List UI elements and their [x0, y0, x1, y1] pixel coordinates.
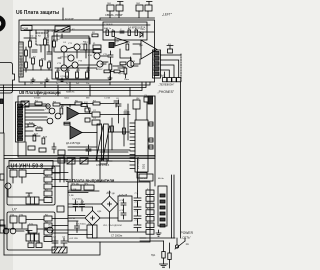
capacitor C1 [32, 50, 37, 52]
bridge plus VD5 [108, 202, 112, 206]
wire title drop [62, 8, 64, 20]
wire U6 m1 [60, 38, 90, 44]
svg-text:U4 УНЧ-50-8: U4 УНЧ-50-8 [11, 163, 44, 169]
connector X2 pin 1 [18, 104, 23, 106]
U3 pin box 5 [146, 216, 154, 221]
transistor box VT1 [10, 170, 17, 177]
transistor Q3 [61, 65, 67, 71]
connector X2 pin 4 [18, 114, 23, 116]
transistor Q7 [68, 55, 74, 61]
wire u8 w9 [118, 110, 120, 123]
resistor R11 [92, 34, 98, 37]
svg-text:U6 Плата защиты: U6 Плата защиты [16, 10, 59, 16]
op-amp A3 U8 [70, 126, 82, 139]
channel block A outline [7, 166, 55, 205]
res col c4 [44, 237, 52, 242]
wire bundle mid h1 [0, 82, 150, 85]
wire u8 v10 [112, 104, 128, 150]
chip DD1 pins left [130, 123, 135, 169]
wire u7 b [39, 173, 55, 201]
sub-board A1 box [103, 22, 147, 40]
capacitor C4 [134, 194, 141, 204]
res col a3 [44, 184, 52, 189]
connector XS1 pin b [116, 5, 123, 11]
transistor Q11 [47, 118, 53, 124]
wire top bundle [100, 11, 155, 20]
svg-text:„LEFT”: „LEFT” [162, 12, 172, 16]
connector X5 pin 2 [160, 200, 165, 203]
svg-text:VD: VD [48, 224, 51, 226]
relay cells B [30, 234, 34, 241]
connector XS2 pin a [136, 5, 143, 11]
wire U6 inner top [22, 24, 150, 26]
resistor R13 [126, 44, 129, 50]
wire R1bc [25, 47, 27, 72]
svg-text:10к: 10к [86, 83, 89, 85]
resistor R21 [33, 135, 36, 141]
capacitor B3 lead [167, 46, 173, 50]
resistor A1 r2 [112, 31, 115, 36]
capacitor C9 [80, 200, 85, 211]
connector X5 pin 1 [160, 194, 165, 197]
connector X5 pin 4 [160, 212, 165, 215]
transistor Q2 [74, 44, 80, 50]
wire p1 [140, 238, 175, 241]
wire u7 c [13, 219, 55, 234]
transistor box VT4 [10, 216, 17, 223]
transistor Q9 [49, 108, 55, 114]
svg-text:1А: 1А [186, 242, 189, 246]
svg-text:КЛ568: КЛ568 [34, 98, 41, 100]
svg-text:1к: 1к [56, 83, 58, 85]
resistor R1 [29, 41, 32, 47]
capacitor C10 [75, 222, 80, 233]
svg-text:ВЫХ: ВЫХ [160, 74, 166, 77]
svg-text:U3 Плата выпрямителя: U3 Плата выпрямителя [66, 178, 115, 183]
svg-text:2к: 2к [66, 83, 68, 85]
wire U6 v7 [110, 61, 112, 80]
svg-text:НЗМ: НЗМ [22, 27, 29, 31]
capacitor C5x [26, 231, 32, 234]
box midcol b [58, 158, 65, 163]
resistor R5 [40, 60, 43, 66]
res col c2 [44, 223, 52, 228]
svg-text:U8 Плата индикации: U8 Плата индикации [19, 90, 61, 95]
inner shield box U6 [52, 36, 89, 79]
connector X3 pin 2 [154, 57, 159, 61]
box preU3 c [100, 159, 107, 164]
res col a1 [44, 170, 52, 175]
antenna symbol XS2 [147, 2, 153, 6]
svg-text:„ТЕЛЕФОН”: „ТЕЛЕФОН” [159, 82, 175, 86]
resistor R16 [81, 104, 87, 107]
wire u8 w8 [108, 131, 130, 133]
resistor R9 [76, 72, 79, 78]
wire U6 v3 [53, 30, 55, 52]
transistor box VT5 [19, 216, 26, 223]
resistor R14 [120, 62, 126, 65]
connector X2 pin 3 [18, 111, 23, 113]
wire rc2 [161, 60, 179, 78]
box X-cell hatch [21, 101, 29, 107]
op-amp A2 U8 [67, 107, 79, 120]
resistor R1c [25, 62, 28, 68]
pad U8 right edge [148, 96, 153, 104]
ground g3 [60, 78, 64, 81]
wire U6 h4 [55, 67, 97, 69]
svg-text:ЗА12: ЗА12 [64, 97, 70, 100]
fuse F3 [162, 252, 165, 259]
resistor R8 [66, 72, 69, 78]
box bl1 [0, 225, 5, 233]
connector XS1 pin a [107, 5, 114, 11]
svg-text:VD1, VD4 КД202М: VD1, VD4 КД202М [103, 225, 122, 227]
wire U6 h3 [55, 51, 94, 53]
transistor Q5 [94, 53, 100, 59]
resistor R18 [60, 108, 63, 114]
box above chip b [144, 97, 150, 102]
wire u3 w4 [110, 212, 147, 232]
transistor Q8a [46, 104, 50, 108]
svg-text:POWER: POWER [181, 231, 194, 235]
board U8 outline [18, 96, 155, 157]
box VD1 dark [109, 43, 114, 48]
relay cells [30, 197, 34, 204]
potentiometer P1 [97, 124, 102, 161]
connector X2 pin 2 [18, 107, 23, 109]
ground g4 [108, 76, 112, 79]
wire U6 m3 [58, 58, 97, 65]
wire U6 m5 [57, 34, 62, 41]
resistor A1 r3 [128, 30, 131, 35]
fuse box F2 [84, 185, 94, 190]
box mid U8 c [85, 108, 90, 112]
left margin shading [0, 0, 13, 270]
antenna symbol XS1 [118, 2, 124, 6]
box bl3 [87, 225, 97, 238]
wire U6 v2 [44, 30, 46, 60]
svg-text:БЛОКИР: БЛОКИР [65, 18, 74, 20]
wire u8 w2 [25, 112, 49, 114]
switch S1 [175, 245, 178, 248]
board U3 outline [68, 182, 150, 242]
box B3 [168, 49, 173, 53]
capacitor cluster bottom [52, 238, 67, 246]
svg-text:ДА К157УД2: ДА К157УД2 [66, 142, 81, 145]
resistor R25 [104, 70, 110, 73]
svg-text:U7: U7 [12, 208, 17, 212]
wire v bund2 [72, 159, 100, 183]
svg-text:ГОЛОВКА КАДРОВ: ГОЛОВКА КАДРОВ [20, 55, 23, 76]
box preU3 a [67, 158, 75, 164]
resistor R27 [124, 68, 127, 74]
wire bundle ticks [25, 82, 130, 96]
resistor R12 [84, 44, 87, 50]
wire U6 h1 [24, 29, 103, 31]
wire u8 w6 [82, 132, 97, 134]
capacitor C5b [134, 203, 141, 213]
svg-text:DD1: DD1 [141, 163, 145, 169]
svg-text:АЛ307: АЛ307 [96, 68, 103, 71]
pot arrow 2 [103, 126, 110, 160]
capacitor U8 c1 [114, 101, 118, 107]
svg-text:С3 2000м: С3 2000м [76, 224, 86, 226]
connector X3 pin 4 [154, 67, 159, 71]
res col a5 [44, 198, 52, 203]
label box U4 [9, 161, 53, 169]
svg-text:2к: 2к [67, 55, 69, 57]
transistor QA1 [127, 61, 134, 68]
chip pad 1 [149, 122, 153, 126]
U3 pin box 3 [146, 203, 154, 208]
hatch lines bottom [54, 247, 66, 253]
capacitor C3b [118, 66, 123, 68]
wire u8 fb1 [63, 105, 90, 114]
wire U6 m6 [36, 30, 49, 52]
wire v bund1 [60, 156, 64, 183]
wire u3 w2 [68, 203, 118, 205]
wire u4u3 link2 [55, 219, 68, 234]
box X-cell U8 [21, 101, 29, 107]
wire left low drop [3, 133, 5, 255]
resistor A1 r4 [135, 30, 138, 35]
box MB [52, 166, 60, 173]
wire mid left drop [0, 85, 4, 133]
svg-text:ХЛЗ: ХЛЗ [36, 241, 41, 243]
wire u8 fb2 [64, 124, 70, 126]
resistor R10 [86, 72, 89, 78]
wire u3 x1 [68, 193, 92, 235]
resistor R3 [53, 41, 56, 47]
dashed wire right [180, 54, 182, 82]
ground p1 [160, 264, 168, 267]
chip pad 3 [149, 145, 153, 149]
resistor R19 [28, 124, 34, 127]
connector X5 housing [158, 186, 167, 226]
transistor Q4 [72, 62, 78, 68]
edge box A [0, 174, 4, 180]
dashed select rect U6 [36, 33, 48, 45]
relay contact box B [26, 234, 39, 241]
svg-text:С1 2000м: С1 2000м [72, 199, 82, 201]
capacitor u8 low [52, 143, 56, 153]
wire U6 v1 [29, 30, 31, 58]
connector X2 pin 6 [18, 121, 23, 123]
wire u4u3 link1 [55, 173, 68, 187]
bridge plus VD6 [91, 216, 95, 220]
svg-text:С4 50В: С4 50В [140, 178, 148, 180]
wire U6 bottom rail [24, 70, 110, 80]
wire p2 [164, 241, 170, 268]
res col a2 [44, 177, 52, 182]
svg-text:ПР1 2А: ПР1 2А [71, 182, 79, 185]
transistor bl [47, 227, 53, 233]
box u8 low a [28, 146, 35, 150]
svg-text:С19 R40: С19 R40 [104, 24, 113, 26]
wire p3 [177, 238, 185, 245]
box preU3 b hatch [80, 158, 88, 164]
wire chip top [136, 102, 147, 120]
svg-text:ДМ: ДМ [136, 98, 139, 100]
wire rc3 [161, 65, 175, 78]
connector X2 pin 7 [18, 124, 23, 126]
resistor R7 [56, 72, 59, 78]
wire U6 m8 [33, 64, 49, 70]
box preU3 a hatch [67, 158, 75, 164]
box u8 low b [39, 148, 46, 152]
wire U6 m10 [125, 58, 138, 78]
caps box U3 [118, 196, 132, 221]
box bl2 [28, 225, 37, 233]
svg-text:+U 5В: +U 5В [69, 218, 76, 220]
transistor VT3 [5, 183, 11, 189]
transistor box VT2 [19, 170, 26, 177]
resistor stack Ra [93, 45, 101, 48]
edge box B [0, 220, 4, 226]
wire U6 v6 [120, 49, 130, 58]
connector X2 pin 8 [18, 128, 23, 130]
capacitor C6 [134, 212, 141, 222]
transistor Q6 [97, 61, 103, 67]
wire u7 a [8, 174, 44, 198]
svg-text:СВЯЗЬ „ПРАВ”: СВЯЗЬ „ПРАВ” [105, 13, 123, 17]
connector strip U6 left [19, 42, 23, 77]
svg-text:+U 12В: +U 12В [69, 189, 77, 191]
op-amp A2 U6 [115, 38, 128, 47]
resistor R15b [109, 64, 112, 70]
capacitor C7 [134, 221, 141, 231]
svg-text:СП3 470к-б: СП3 470к-б [96, 164, 110, 167]
fuse box F1 [71, 185, 81, 190]
box above chip a [133, 100, 140, 109]
wire u3 w3 [68, 217, 118, 219]
relay box K1 [55, 26, 70, 32]
wire u3 w6 [68, 191, 110, 211]
connector XL2 [28, 243, 34, 248]
wire u8 w4 [25, 125, 36, 127]
ground right mid [156, 230, 161, 236]
wire u8 h10 [68, 150, 130, 152]
svg-text:гнез: гнез [141, 29, 145, 31]
capacitor A1 c1 [120, 31, 124, 33]
wire QA1 [134, 59, 140, 64]
resistor U8 r2 [53, 103, 60, 106]
right wire pair [172, 175, 175, 238]
resistor R17 [64, 122, 70, 125]
connector X5 pin 6 [160, 224, 165, 227]
connector strip ticks [19, 44, 23, 74]
chip pad 2 [149, 138, 153, 142]
resistor R20 [36, 128, 42, 131]
channel block B outline [7, 212, 55, 250]
paper background [0, 0, 195, 270]
connector XL3 [36, 243, 42, 248]
connector X2 pin 10 [18, 135, 23, 137]
svg-text:„PHONES”: „PHONES” [158, 90, 175, 94]
hatch box bottom [52, 247, 67, 253]
resistor U8 r4 [93, 102, 100, 105]
resistor stack Rb [93, 49, 101, 52]
wire U6 m4 [101, 56, 108, 64]
capacitor C8 [73, 200, 78, 211]
capacitor Cb1 [121, 199, 126, 209]
connector X2 pin 5 [18, 118, 23, 120]
resistor R22 [42, 138, 45, 144]
wire U6 h5 [103, 31, 154, 33]
svg-text:КАБЕЛЬ: КАБЕЛЬ [66, 91, 75, 94]
chip DD1 pins right [148, 124, 153, 147]
connector XS2 pin b [145, 5, 152, 11]
connector X2 pin 11 [18, 138, 23, 140]
svg-text:Пр1: Пр1 [151, 254, 156, 257]
output jack row [163, 78, 167, 82]
svg-text:R42 1к: R42 1к [104, 28, 111, 30]
diode A1 d1 [140, 32, 143, 37]
capacitor C3a [108, 51, 113, 61]
wire U6 m9 [103, 62, 125, 71]
connector X2 housing [16, 102, 26, 142]
wire u3 w7 [137, 191, 139, 207]
svg-text:10к: 10к [30, 36, 33, 38]
pot arrow 1 [96, 126, 103, 160]
connector X3 pin 5 [154, 72, 159, 76]
wire U6 h2 [24, 37, 36, 39]
wire u8 w5 [79, 113, 92, 115]
svg-text:РЭС49: РЭС49 [46, 31, 54, 33]
wire v bund3 [137, 159, 139, 192]
box midcol c [57, 206, 64, 212]
connector X3 pin 3 [154, 62, 159, 66]
ground g1 [31, 78, 35, 81]
connector X3 pin 1 [154, 52, 159, 56]
pad U8 left edge [0, 99, 3, 104]
wire u8 w1 [25, 105, 70, 108]
wire bundle below U8 [4, 156, 155, 162]
wire U6 m2 [80, 50, 94, 58]
box below chip [137, 173, 147, 179]
label box C4 [139, 174, 153, 181]
svg-text:5к: 5к [47, 36, 49, 38]
transistor VT7 [10, 228, 16, 234]
resistor R4 [32, 58, 35, 64]
resistor A1 r1 [106, 30, 109, 35]
wire rc4 [161, 70, 170, 78]
potentiometer P2 [104, 124, 109, 161]
IC chip DD1 [135, 120, 148, 172]
ground g2 [45, 78, 49, 81]
resistor U8 r3 [75, 102, 82, 105]
relay contact box [26, 197, 39, 204]
bridge rectifier VD5 [102, 196, 118, 212]
U3 pin box 7 [146, 230, 154, 235]
resistor U8 r1 [35, 102, 42, 105]
U3 pin box 2 [146, 197, 154, 202]
wire u8 x1 [68, 146, 97, 148]
svg-text:„СЕТЬ”: „СЕТЬ” [182, 235, 191, 239]
wire bundle mid h2 [0, 82, 146, 88]
box midcol a [58, 150, 65, 155]
capacitor C3c [116, 100, 121, 110]
svg-text:КТ361Б: КТ361Б [61, 76, 69, 78]
res col c1 [44, 216, 52, 221]
transistor Q1 [61, 46, 67, 52]
box mid U8 b [92, 120, 100, 125]
transistor VT6 [3, 228, 9, 234]
connector X3 housing [153, 50, 161, 78]
connector X2 pin 9 [18, 131, 23, 133]
bridge rectifier VD6 [85, 211, 100, 226]
resistor R23 [111, 126, 114, 132]
